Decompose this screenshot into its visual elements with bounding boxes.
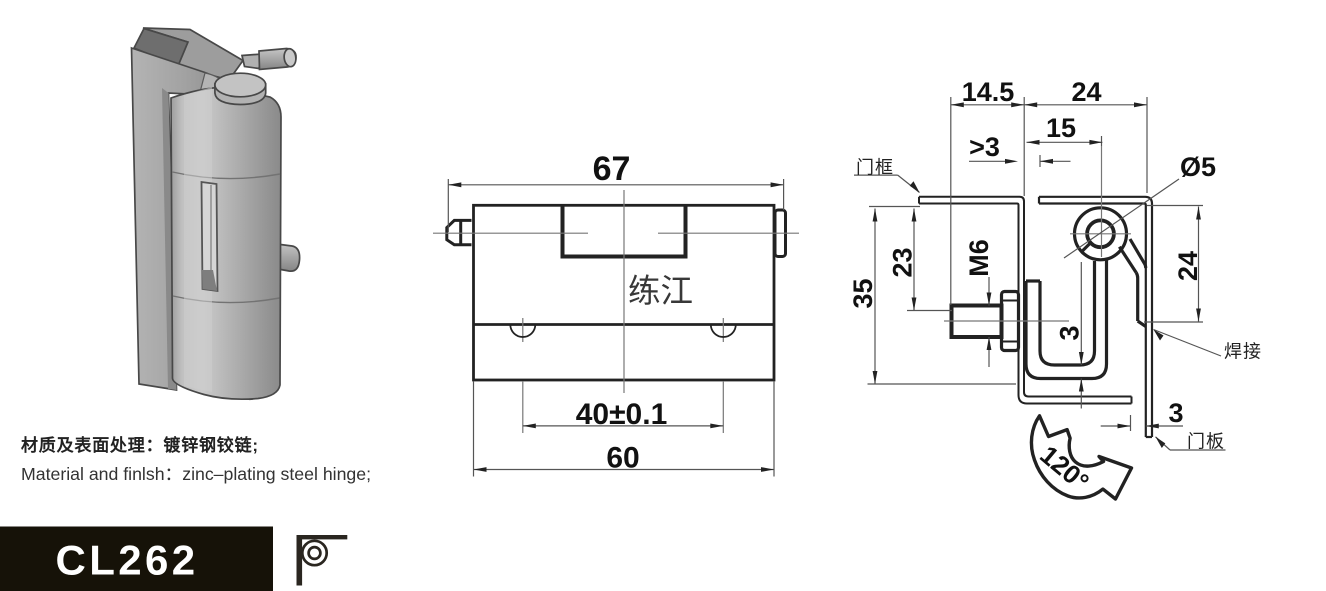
chinese labels <box>856 158 1262 452</box>
top notch <box>563 207 686 257</box>
section view texts <box>848 77 1216 497</box>
front view dim texts <box>576 150 668 475</box>
body highlight <box>184 87 212 392</box>
door frame profile <box>919 197 1132 404</box>
channel front wall and left slab <box>132 48 229 390</box>
M6 nut <box>1002 292 1019 351</box>
vertical centerline <box>623 190 625 393</box>
svg-text:M6: M6 <box>964 239 994 277</box>
knuckle seam lower <box>173 296 280 303</box>
left 35 dim <box>874 209 876 385</box>
pivot centerlines <box>1070 233 1131 235</box>
title block <box>0 527 273 591</box>
hole centerlines <box>522 318 524 342</box>
svg-text:Ø5: Ø5 <box>1180 152 1216 182</box>
logo <box>297 535 348 586</box>
svg-text:>3: >3 <box>969 132 1000 162</box>
bolt centerline <box>944 320 1069 322</box>
svg-text:CL262: CL262 <box>55 537 198 584</box>
pin centerline <box>433 190 799 433</box>
pin top cap side <box>215 84 266 105</box>
120 degree arrow <box>1031 416 1131 499</box>
bottom pin tip <box>236 376 263 399</box>
M6 bolt <box>952 306 1002 338</box>
hinge body outline <box>474 205 775 380</box>
hole arc left <box>510 325 535 338</box>
curl sheet end tick <box>1081 243 1091 252</box>
dim 67 <box>448 179 783 232</box>
svg-text:3: 3 <box>1168 398 1183 428</box>
M6 leader <box>988 277 990 306</box>
channel interior dark <box>134 29 188 67</box>
top dim line 14.5 / 24 <box>951 104 1147 106</box>
weld leader <box>1154 330 1222 357</box>
right pivot pin <box>775 210 786 257</box>
right 24 dim <box>1198 207 1200 322</box>
mid-right stub cylinder <box>267 243 300 271</box>
dim 40±0.1 <box>523 425 724 427</box>
top-right stub cylinder <box>259 49 296 70</box>
arrowheads <box>873 102 1201 448</box>
stub end cap <box>283 48 297 67</box>
left cone pin <box>447 220 472 244</box>
door panel leader <box>1156 437 1171 450</box>
svg-text:焊接: 焊接 <box>1224 342 1262 362</box>
hole arc right <box>711 325 736 338</box>
hinge leaf curl (door side) <box>1075 208 1146 327</box>
>3 dim <box>969 160 1012 162</box>
bottom right 3 dim <box>1101 425 1131 427</box>
svg-text:60: 60 <box>606 442 639 475</box>
neck to door panel <box>1119 247 1136 273</box>
O5 leader <box>1064 179 1179 258</box>
svg-text:40±0.1: 40±0.1 <box>576 398 668 431</box>
door panel profile <box>1039 197 1152 437</box>
main leaf body with knuckle <box>171 87 281 399</box>
svg-text:Material and finlsh：zinc–plati: Material and finlsh：zinc–plating steel h… <box>21 464 371 484</box>
hinge leaf channel (frame side) <box>1026 259 1107 379</box>
svg-text:24: 24 <box>1071 77 1101 107</box>
side slot groove <box>202 182 218 291</box>
channel right tab <box>242 54 262 69</box>
23 dim <box>913 209 915 311</box>
svg-text:67: 67 <box>593 150 631 188</box>
knuckle top poking through channel <box>198 73 234 105</box>
svg-text:练江: 练江 <box>628 273 693 310</box>
dim 60 <box>474 381 775 477</box>
svg-text:15: 15 <box>1046 113 1076 143</box>
svg-text:门板: 门板 <box>1187 432 1225 452</box>
svg-text:24: 24 <box>1173 251 1203 281</box>
svg-text:23: 23 <box>888 247 918 277</box>
pin top cap face <box>215 73 266 97</box>
door frame leader <box>854 174 898 176</box>
svg-text:14.5: 14.5 <box>962 77 1015 107</box>
svg-text:门框: 门框 <box>856 158 894 178</box>
knuckle seam upper <box>173 172 281 179</box>
lower plate line <box>474 323 775 326</box>
svg-text:材质及表面处理：镀锌钢铰链;: 材质及表面处理：镀锌钢铰链; <box>21 435 259 455</box>
channel back wall rim <box>143 28 243 80</box>
svg-text:35: 35 <box>848 278 878 308</box>
15 dim <box>1027 141 1103 143</box>
slab right crease <box>162 88 177 390</box>
mid 3 thickness <box>1080 262 1082 365</box>
svg-text:3: 3 <box>1055 325 1085 340</box>
